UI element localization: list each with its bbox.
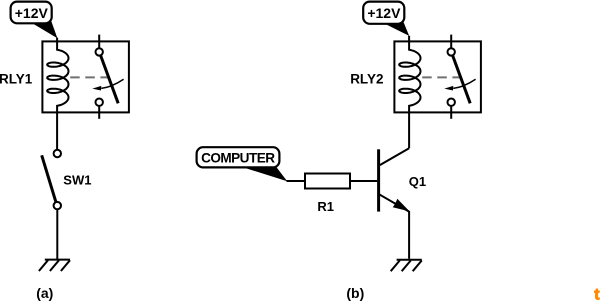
svg-text:(a): (a) — [36, 285, 53, 301]
svg-text:+12V: +12V — [15, 5, 49, 21]
svg-text:t: t — [594, 287, 600, 302]
svg-text:(b): (b) — [346, 285, 364, 301]
svg-text:+12V: +12V — [367, 5, 401, 21]
svg-text:Q1: Q1 — [409, 174, 426, 189]
svg-text:R1: R1 — [317, 199, 334, 214]
svg-text:COMPUTER: COMPUTER — [201, 150, 275, 165]
svg-text:SW1: SW1 — [63, 172, 91, 187]
svg-text:RLY2: RLY2 — [350, 72, 383, 87]
svg-text:RLY1: RLY1 — [0, 72, 33, 87]
